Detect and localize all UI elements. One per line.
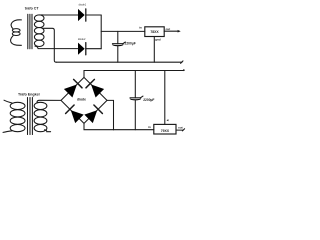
bridge diode lower-right	[84, 105, 102, 123]
wire secondary center tap down to ground rail	[43, 28, 57, 62]
terminal tick negative output	[182, 129, 184, 131]
wire bus to regulator input	[101, 30, 145, 32]
transformer T1 secondary winding	[34, 15, 44, 47]
svg-text:in: in	[148, 125, 151, 129]
svg-text:2200µF: 2200µF	[143, 98, 154, 102]
svg-text:Trafo Engkel: Trafo Engkel	[18, 93, 40, 97]
wire bottom circuit upper rail	[84, 70, 183, 72]
wire U1 ground lead	[153, 37, 155, 63]
bridge diode lower-left	[66, 105, 84, 123]
svg-text:2200µF: 2200µF	[125, 41, 136, 45]
bridge diamond frame	[61, 77, 107, 123]
svg-text:trafo CT: trafo CT	[25, 6, 40, 10]
svg-text:diode: diode	[77, 98, 86, 102]
transformer T2 secondary winding	[34, 102, 47, 131]
svg-text:out: out	[178, 126, 183, 130]
svg-text:out: out	[166, 27, 171, 31]
wire T2 secondary top to bridge left node	[37, 100, 61, 103]
bridge diode upper-left	[64, 79, 82, 97]
svg-text:diode1: diode1	[79, 4, 87, 7]
regulator U1 78XX	[145, 27, 164, 37]
transformer T2 core	[28, 98, 33, 135]
diode D2	[78, 43, 86, 55]
wire top circuit ground rail	[56, 61, 182, 63]
wire U2 output	[176, 129, 183, 131]
capacitor C2	[129, 96, 143, 100]
capacitor C1 bottom lead	[117, 46, 119, 62]
diode D1	[78, 9, 86, 21]
wire U1 output	[164, 30, 179, 32]
pin marker gnd (U2)	[167, 119, 169, 121]
wire cathode bus	[100, 15, 102, 49]
wire U2 ground lead to rail	[164, 71, 166, 125]
wire D2 cathode to bus	[86, 48, 101, 50]
wire T2 secondary bottom stub	[45, 130, 51, 132]
capacitor C2 top lead	[134, 71, 136, 98]
wire secondary top tap to D1	[39, 14, 78, 16]
terminal tick ground rail	[181, 61, 183, 64]
regulator U2 79XX	[154, 124, 176, 134]
wire secondary bottom tap to D2	[35, 46, 78, 49]
svg-text:diode2: diode2	[78, 38, 86, 41]
bridge diode upper-right	[86, 79, 104, 97]
capacitor C1	[112, 42, 126, 46]
svg-text:in: in	[139, 25, 142, 29]
transformer T2 primary winding	[3, 100, 25, 132]
transformer T1 core	[28, 14, 32, 49]
terminal arrow positive output	[178, 30, 181, 33]
svg-text:79XX: 79XX	[161, 129, 170, 133]
svg-text:78XX: 78XX	[150, 30, 159, 34]
transformer T1 primary winding	[11, 20, 22, 45]
wire bridge right node to negative rail	[107, 100, 114, 129]
wire bridge top node to rail	[83, 71, 85, 78]
svg-text:gnd: gnd	[155, 37, 161, 41]
capacitor C1 top lead	[117, 31, 119, 43]
capacitor C2 bottom lead	[134, 100, 136, 129]
wire D1 cathode to bus	[86, 14, 101, 16]
wire negative rail to regulator input	[114, 129, 154, 131]
wire bridge bottom node to negative rail	[84, 123, 114, 129]
terminal dot upper rail end	[183, 69, 185, 71]
